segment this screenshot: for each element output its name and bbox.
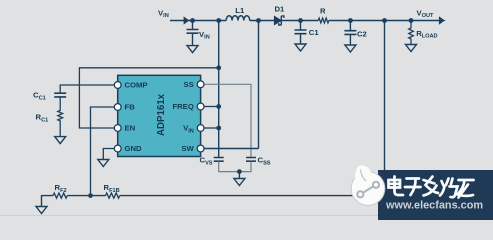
wire VIN vertical line to FREQ VIN pins and CVS	[218, 21, 220, 158]
svg-text:FREQ: FREQ	[172, 102, 193, 111]
watermark box	[378, 170, 493, 220]
pin FREQ	[172, 102, 204, 111]
pin SS	[184, 80, 204, 89]
label D1	[275, 4, 286, 13]
pin COMP	[114, 81, 147, 90]
capacitor VIN bypass	[187, 30, 199, 34]
svg-text:L1: L1	[235, 6, 245, 15]
watermark text url	[385, 200, 483, 212]
svg-text:D1: D1	[275, 4, 286, 13]
watermark logo	[351, 166, 385, 206]
label RF2	[55, 183, 67, 194]
pin EN	[114, 124, 135, 133]
capacitor C2	[344, 31, 356, 35]
watermark text elecfans chinese	[389, 177, 474, 198]
diode D1 schottky	[274, 16, 284, 25]
svg-text:FB: FB	[125, 103, 136, 112]
node C2 junction	[348, 18, 353, 23]
label RF1B	[104, 183, 120, 194]
node EN to VIN junction	[216, 65, 221, 70]
resistor R	[318, 18, 329, 23]
label ADP161x	[156, 93, 167, 136]
svg-text:EN: EN	[125, 124, 136, 133]
node C1 junction	[298, 18, 303, 23]
pin SW	[181, 144, 204, 153]
svg-text:C2: C2	[357, 30, 367, 39]
svg-text:SW: SW	[181, 144, 194, 153]
wire GND pin	[103, 149, 114, 160]
ground RC1	[55, 137, 66, 144]
ground GND pin	[98, 160, 109, 167]
capacitor CVS	[214, 158, 224, 162]
node CVS CSS ground junction	[237, 169, 242, 174]
node VIN input junction	[190, 18, 195, 23]
ground VIN bypass	[187, 33, 198, 52]
pin FB	[114, 103, 135, 112]
resistor RF1B	[106, 193, 120, 198]
wire FB loop	[91, 107, 115, 196]
label CC1	[33, 91, 46, 102]
pin GND	[114, 144, 142, 153]
wire FREQ to VIN vertical	[204, 104, 221, 109]
arrow VIN input	[181, 17, 189, 23]
wire C2 drop	[349, 21, 351, 31]
bottom border line	[0, 215, 493, 216]
svg-text:C1: C1	[309, 28, 320, 37]
label RLOAD	[416, 29, 437, 40]
wire COMP	[60, 85, 114, 93]
capacitor CC1	[54, 93, 66, 108]
node SW top junction	[256, 18, 261, 23]
label CSS	[258, 156, 271, 167]
wire top rail VIN to VOUT	[170, 20, 443, 22]
ground RLOAD	[406, 45, 417, 52]
label C1	[309, 28, 320, 37]
wire SW pin to switch node	[204, 148, 259, 150]
wire VIN pin to VIN vertical	[204, 126, 221, 131]
ground C2	[345, 34, 356, 52]
wire VIN bypass cap drop	[192, 21, 194, 30]
ground CVS CSS	[234, 172, 245, 186]
wire EN loop top	[79, 68, 218, 128]
resistor RLOAD	[409, 21, 414, 45]
node FB divider junction	[88, 193, 93, 198]
svg-text:COMP: COMP	[125, 81, 148, 90]
wire SW node vertical	[258, 21, 260, 149]
wire CVS CSS ground link gray	[219, 161, 251, 171]
pin VIN	[183, 124, 204, 135]
ground C1	[295, 34, 306, 51]
capacitor C1	[295, 30, 307, 34]
node VOUT sense junction	[382, 18, 387, 23]
svg-text:www.elecfans.com: www.elecfans.com	[385, 200, 483, 212]
resistor RC1	[58, 108, 63, 136]
label VIN bypass cap	[199, 30, 210, 41]
arrow VOUT	[435, 17, 444, 24]
label R	[320, 7, 326, 16]
svg-text:ADP161x: ADP161x	[156, 93, 167, 136]
svg-text:GND: GND	[125, 144, 143, 153]
ground RF2	[36, 207, 47, 214]
inductor L1	[226, 16, 250, 21]
node RLOAD junction	[409, 18, 414, 23]
resistor RF2	[53, 193, 67, 198]
wire C1 drop	[300, 21, 302, 31]
op-amp U1 ADP161x IC body	[118, 75, 201, 156]
wire SS loop gray	[204, 84, 251, 157]
wire bottom rail feedback	[42, 196, 386, 207]
node VIN vertical tap	[216, 18, 221, 23]
label L1	[235, 6, 245, 15]
svg-text:R: R	[320, 7, 326, 16]
label C2	[357, 30, 367, 39]
label VOUT	[417, 8, 435, 19]
svg-text:SS: SS	[184, 80, 194, 89]
label VIN input	[158, 8, 169, 19]
capacitor CSS	[246, 158, 256, 162]
wire VOUT sense vertical to bottom rail	[384, 21, 386, 196]
label RC1	[36, 113, 49, 124]
label CVS	[200, 156, 213, 167]
